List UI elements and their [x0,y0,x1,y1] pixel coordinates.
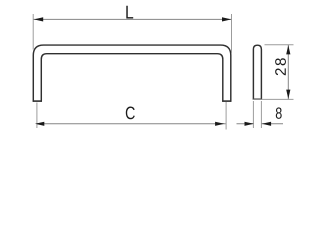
C arrow left [35,122,44,126]
L arrow left [34,17,43,21]
label 8 [276,107,282,118]
8 extension line left [252,101,254,128]
side view capsule [253,45,261,99]
label 28 second digit [275,58,286,65]
28 extension line top [265,44,294,46]
28 dimension line [287,45,289,100]
L extension line right [231,14,233,53]
C arrow right [215,122,224,126]
C extension line right [225,102,227,130]
capsule bottom cap [253,98,262,100]
28 arrow top [286,45,290,54]
8 dimension lead line left [237,123,254,125]
8 arrow left (points right) [245,122,254,126]
8 extension line right [260,101,262,128]
8 dimension lead line right [261,123,283,125]
8 arrow right (points left) [262,122,271,126]
left leg end cap [33,100,42,102]
label C [126,106,135,119]
C dimension line [37,123,226,125]
C extension line left [36,103,38,129]
handle front view outer outline [33,45,231,102]
L extension line left [32,14,34,50]
right leg end cap [222,100,231,102]
handle front view inner outline [41,54,223,102]
28 extension line bottom [253,98,294,100]
L arrow right [222,17,231,21]
28 arrow bottom [286,90,290,99]
label 28 (rotated) [275,68,286,75]
label L [126,6,133,19]
L dimension line [34,18,232,20]
